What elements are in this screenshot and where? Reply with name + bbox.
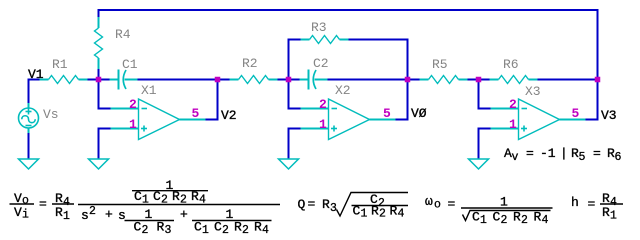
svg-text:2: 2 xyxy=(319,97,327,112)
svg-text:=: = xyxy=(526,146,534,161)
svg-text:2: 2 xyxy=(521,214,528,227)
svg-text:o: o xyxy=(22,195,29,208)
svg-text:3: 3 xyxy=(165,224,172,237)
svg-text:R: R xyxy=(602,205,610,220)
svg-text:C: C xyxy=(493,210,501,225)
svg-text:+: + xyxy=(105,207,113,222)
svg-text:2: 2 xyxy=(509,97,517,112)
svg-text:2: 2 xyxy=(242,224,249,237)
svg-text:1: 1 xyxy=(142,193,149,206)
svg-text:v: v xyxy=(512,151,519,164)
svg-text:V: V xyxy=(14,191,22,206)
svg-text:R2: R2 xyxy=(242,56,258,71)
svg-text:ω: ω xyxy=(425,194,433,209)
svg-text:R6: R6 xyxy=(503,57,519,72)
svg-text:C: C xyxy=(214,220,222,235)
svg-text:R: R xyxy=(602,191,610,206)
svg-text:C2: C2 xyxy=(313,56,329,71)
svg-text:1: 1 xyxy=(145,207,153,222)
svg-text:1: 1 xyxy=(610,210,617,223)
svg-text:2: 2 xyxy=(180,193,187,206)
svg-text:V2: V2 xyxy=(221,108,237,123)
svg-text:h: h xyxy=(571,195,579,210)
svg-text:1: 1 xyxy=(202,224,209,237)
svg-text:R1: R1 xyxy=(52,57,68,72)
svg-text:C: C xyxy=(472,210,480,225)
svg-text:-1: -1 xyxy=(540,146,556,161)
svg-text:2: 2 xyxy=(89,205,96,218)
svg-text:R: R xyxy=(234,220,242,235)
svg-text:+: + xyxy=(180,207,188,222)
svg-text:R: R xyxy=(191,189,199,204)
svg-text:R: R xyxy=(254,220,262,235)
svg-text:2: 2 xyxy=(142,224,149,237)
svg-text:2: 2 xyxy=(501,214,508,227)
svg-text:o: o xyxy=(434,199,441,212)
svg-text:|: | xyxy=(560,146,568,161)
svg-text:4: 4 xyxy=(262,224,269,237)
svg-text:6: 6 xyxy=(615,151,622,164)
svg-text:R: R xyxy=(55,191,63,206)
svg-text:1: 1 xyxy=(500,195,508,210)
svg-text:i: i xyxy=(22,209,29,222)
svg-text:R: R xyxy=(55,205,63,220)
svg-text:5: 5 xyxy=(579,151,586,164)
svg-text:4: 4 xyxy=(398,208,405,221)
svg-text:s: s xyxy=(81,208,89,223)
svg-text:X1: X1 xyxy=(141,83,157,98)
svg-text:R: R xyxy=(513,210,521,225)
svg-text:R: R xyxy=(322,197,330,212)
svg-text:=: = xyxy=(39,197,47,212)
svg-text:R5: R5 xyxy=(432,57,448,72)
svg-text:3: 3 xyxy=(330,202,337,215)
svg-text:4: 4 xyxy=(542,214,549,227)
svg-text:X3: X3 xyxy=(525,84,541,99)
svg-text:4: 4 xyxy=(199,193,206,206)
svg-text:Vs: Vs xyxy=(43,107,59,122)
svg-text:R: R xyxy=(157,220,165,235)
svg-text:X2: X2 xyxy=(335,83,351,98)
svg-text:=: = xyxy=(308,197,316,212)
svg-text:1: 1 xyxy=(361,208,368,221)
svg-text:=: = xyxy=(588,197,596,212)
svg-text:1: 1 xyxy=(509,117,517,132)
svg-text:R: R xyxy=(390,204,398,219)
svg-text:1: 1 xyxy=(319,117,327,132)
svg-text:C: C xyxy=(194,220,202,235)
svg-text:=: = xyxy=(448,197,456,212)
svg-text:2: 2 xyxy=(161,193,168,206)
svg-text:1: 1 xyxy=(480,214,487,227)
svg-text:2: 2 xyxy=(129,97,137,112)
svg-text:R4: R4 xyxy=(115,27,131,42)
svg-text:C: C xyxy=(134,189,142,204)
svg-text:V: V xyxy=(14,205,22,220)
svg-text:C: C xyxy=(134,220,142,235)
svg-text:R3: R3 xyxy=(311,20,327,35)
svg-text:C: C xyxy=(153,189,161,204)
svg-text:R: R xyxy=(371,204,379,219)
svg-text:2: 2 xyxy=(379,208,386,221)
svg-text:=: = xyxy=(593,146,601,161)
svg-text:R: R xyxy=(534,210,542,225)
svg-text:5: 5 xyxy=(192,106,200,121)
svg-text:5: 5 xyxy=(572,106,580,121)
svg-text:R: R xyxy=(172,189,180,204)
svg-text:Q: Q xyxy=(298,197,306,212)
svg-text:4: 4 xyxy=(610,196,617,209)
svg-text:5: 5 xyxy=(383,106,391,121)
svg-text:V1: V1 xyxy=(28,67,44,82)
svg-text:C1: C1 xyxy=(122,57,138,72)
svg-text:VØ: VØ xyxy=(411,106,427,121)
svg-text:1: 1 xyxy=(63,210,70,223)
svg-text:4: 4 xyxy=(63,196,70,209)
svg-text:V3: V3 xyxy=(601,108,617,123)
svg-text:1: 1 xyxy=(129,117,137,132)
svg-text:2: 2 xyxy=(222,224,229,237)
svg-text:C: C xyxy=(353,204,361,219)
svg-text:s: s xyxy=(118,208,126,223)
svg-text:1: 1 xyxy=(226,207,234,222)
